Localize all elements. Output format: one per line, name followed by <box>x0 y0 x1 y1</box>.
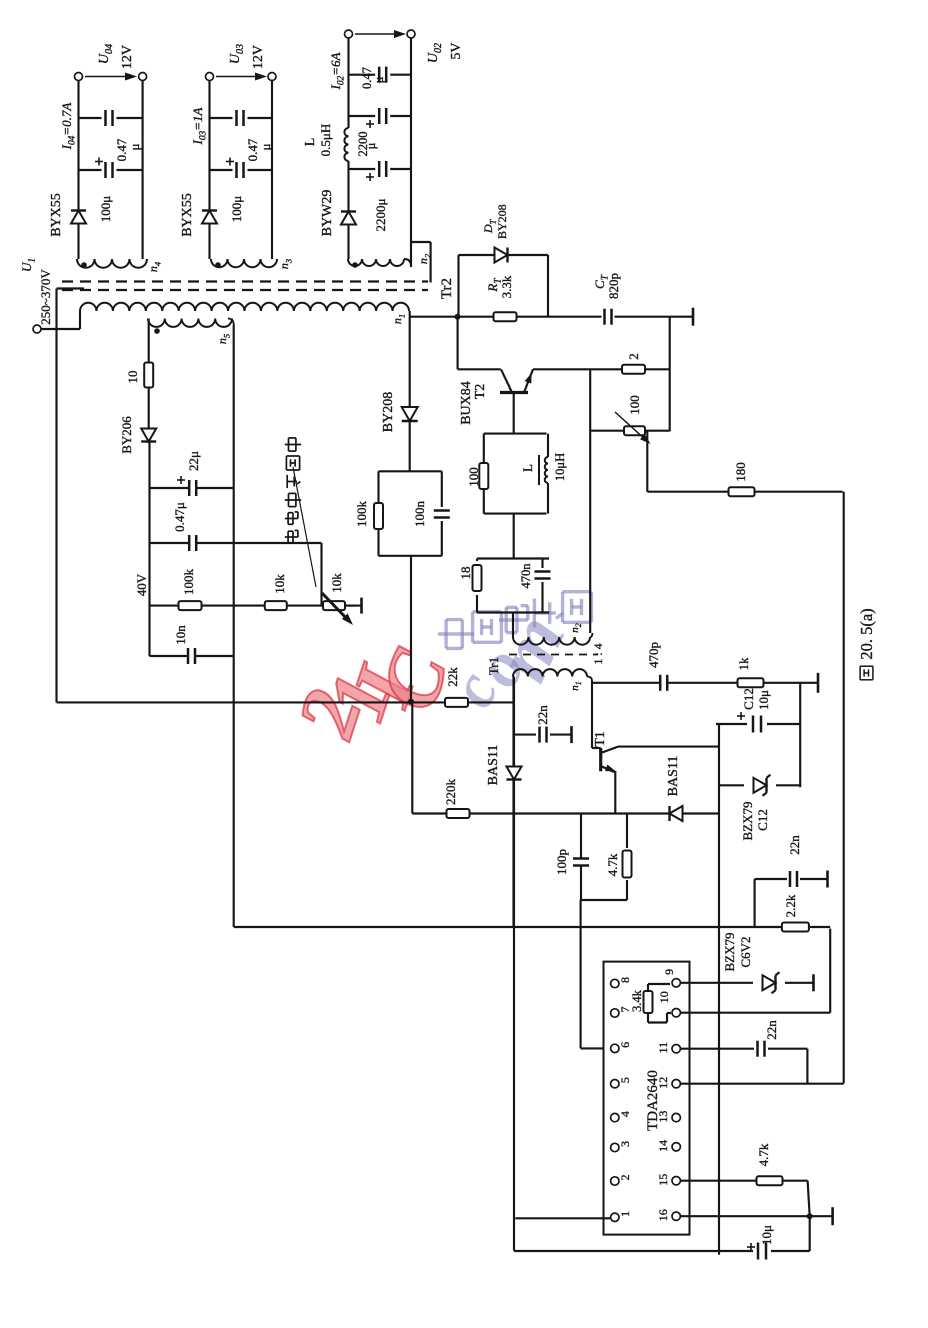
svg-text:C12: C12 <box>755 809 770 831</box>
svg-text:10μH: 10μH <box>553 453 567 481</box>
svg-text:L: L <box>303 138 318 147</box>
svg-text:2.2k: 2.2k <box>783 894 798 917</box>
svg-text:BAS11: BAS11 <box>486 745 501 786</box>
wire pot to 180 connector <box>646 431 648 492</box>
ground stub (22n#1) <box>826 871 829 888</box>
svg-text:12V: 12V <box>251 45 266 69</box>
pin 8 <box>611 979 619 987</box>
svg-text:15: 15 <box>656 1174 670 1186</box>
watermark zhongguo dianziwang <box>438 620 474 649</box>
wire T2 base lead <box>513 393 515 434</box>
svg-text:10k: 10k <box>272 574 287 594</box>
wire base block right side <box>484 433 547 435</box>
wire 180 line <box>647 491 842 493</box>
svg-text:5V: 5V <box>449 42 464 59</box>
wire emitter rail top <box>411 702 413 814</box>
wire pot100 line <box>590 430 670 432</box>
resistor 10k potentiometer <box>323 601 345 610</box>
capacitor 0.47u (U04) <box>79 117 102 119</box>
wire n5 upper lead <box>148 319 150 444</box>
wire control supply rail <box>718 723 720 1254</box>
diode BYX55 (U04 rectifier) <box>71 211 86 224</box>
wire BZX79C12 branch <box>719 784 744 786</box>
caption glyph tu <box>859 666 861 680</box>
wire 22k line <box>57 701 446 703</box>
winding n2 <box>348 259 404 266</box>
wire emitter network riser <box>669 317 671 432</box>
winding n5 auxiliary <box>148 319 232 327</box>
svg-text:18: 18 <box>458 567 473 580</box>
wire Tr1 n1 right lead <box>587 677 592 682</box>
pin 9 <box>672 979 680 987</box>
resistor 10k (divider) <box>265 601 287 610</box>
diode BAS11 #1 <box>507 767 522 780</box>
svg-text:10: 10 <box>125 371 140 384</box>
svg-text:100μ: 100μ <box>229 196 244 223</box>
svg-text:4: 4 <box>618 1111 632 1117</box>
snubber bottom branch <box>441 521 443 556</box>
wire n1 top lead <box>79 311 81 329</box>
svg-text:C6V2: C6V2 <box>738 936 753 967</box>
svg-text:μ: μ <box>258 143 273 150</box>
diode BZX79 C6V2 zener <box>763 975 776 990</box>
svg-text:3: 3 <box>618 1141 632 1147</box>
wire 22u branch <box>150 487 190 489</box>
svg-text:n4​: n4​ <box>146 261 162 272</box>
ground stub (pin16) <box>831 1207 834 1225</box>
voltage arrow U02 <box>355 33 397 35</box>
resistor 10 <box>144 363 153 388</box>
node collector junction <box>455 314 461 320</box>
resistor 180 <box>729 487 755 496</box>
svg-text:22n: 22n <box>764 1020 779 1040</box>
pin 5 <box>611 1080 619 1088</box>
svg-text:10k: 10k <box>329 573 344 593</box>
node pin16 junction <box>807 1213 813 1219</box>
resistor 18 <box>476 595 478 613</box>
svg-text:μ: μ <box>372 76 386 83</box>
pin 6 <box>611 1044 619 1052</box>
voltage arrow U03 <box>216 76 258 78</box>
diode BY208 <box>402 407 418 421</box>
resistor 220k <box>447 809 470 818</box>
leader line <box>293 467 316 587</box>
svg-text:BYW29: BYW29 <box>320 190 335 237</box>
svg-text:0.5μH: 0.5μH <box>318 124 333 157</box>
wire DT loop <box>457 255 459 317</box>
resistor RT 3.3k <box>494 312 517 321</box>
svg-text:11: 11 <box>656 1042 670 1054</box>
wire 470p line <box>592 682 660 684</box>
capacitor 22n #1 <box>789 871 792 887</box>
ground stub (22n Tr1) <box>570 726 573 743</box>
terminal U04 + <box>75 73 83 81</box>
capacitor 22n #2 <box>756 1041 759 1057</box>
resistor 100k (snubber) <box>374 503 383 529</box>
wire U02 rail jog <box>411 241 431 243</box>
resistor 100k (divider) <box>179 601 202 610</box>
svg-text:BY206: BY206 <box>119 416 134 454</box>
capacitor 22n (Tr1) <box>538 727 541 743</box>
svg-text:14: 14 <box>656 1140 670 1152</box>
terminal U1 <box>33 325 41 333</box>
transformer Tr1 core <box>509 654 598 656</box>
svg-text:BUX84: BUX84 <box>459 381 474 425</box>
svg-text:22k: 22k <box>445 667 460 687</box>
wire pin10 line <box>680 1012 830 1014</box>
capacitor 10n <box>187 648 190 664</box>
wire timing node <box>581 899 627 901</box>
wire U03 top rail <box>208 81 210 260</box>
resistor 100 pot <box>624 426 645 435</box>
wire base blocks connector <box>513 514 515 559</box>
node A junction <box>408 699 414 705</box>
svg-text:n5​: n5​ <box>215 333 231 344</box>
ground stub (CT) <box>692 308 695 326</box>
label output-voltage-adjust text <box>285 536 298 538</box>
pin 15 <box>672 1177 680 1185</box>
wire collector node line <box>410 316 602 318</box>
terminal U02 + <box>345 30 353 38</box>
wire C12 cap branch <box>716 723 747 725</box>
wire bus vertical <box>234 926 831 928</box>
resistor 100 (base) <box>483 489 485 514</box>
capacitor 470p <box>659 675 662 691</box>
svg-text:12: 12 <box>656 1077 670 1089</box>
ground stub (1k line) <box>817 673 820 693</box>
svg-text:Tr1: Tr1 <box>486 657 501 675</box>
wire U04 top rail <box>77 81 79 260</box>
ground stub (pot) <box>360 598 363 614</box>
capacitor CT 820p <box>603 309 606 325</box>
capacitor 0.47u (U02) <box>349 74 376 76</box>
transistor T2 BUX84 <box>500 391 528 394</box>
wire pin16 line <box>680 1215 832 1217</box>
resistor 2 <box>622 365 645 374</box>
pin 1 <box>611 1213 619 1221</box>
wire Tr1 n2 top lead <box>512 613 514 638</box>
svg-text:100: 100 <box>627 395 642 415</box>
svg-text:n2​: n2​ <box>416 253 432 264</box>
wire 22n stub <box>514 734 536 736</box>
svg-text:16: 16 <box>656 1209 670 1221</box>
resistor 3.4k (pins 9-10) <box>648 983 670 985</box>
capacitor 0.47u (aux) <box>188 535 191 551</box>
wire 10n branch <box>150 655 189 657</box>
winding Tr1 n2 <box>513 637 590 645</box>
svg-text:220k: 220k <box>443 779 458 806</box>
terminal U04 - <box>139 73 147 81</box>
svg-text:180: 180 <box>733 462 748 482</box>
wire C12 block right side <box>799 682 801 787</box>
svg-text:10n: 10n <box>173 625 188 645</box>
wire BY208 line right <box>409 311 411 471</box>
svg-text:Tr2: Tr2 <box>439 278 455 299</box>
svg-text:1 : 4: 1 : 4 <box>591 643 605 664</box>
pin 14 <box>672 1143 680 1151</box>
diode BYX55 (U03 rectifier) <box>202 211 217 224</box>
winding n3 <box>211 259 277 267</box>
wire 22n#1 branch <box>754 879 756 927</box>
capacitor 100u (U03) <box>210 169 233 171</box>
pin 3 <box>611 1143 619 1151</box>
capacitor 10u <box>757 1243 760 1260</box>
wire 0.47u to divider <box>320 543 322 606</box>
svg-text:6: 6 <box>618 1042 632 1048</box>
svg-text:2: 2 <box>626 353 641 360</box>
wire 0.47u branch <box>150 542 190 544</box>
capacitor 2200u #2 (U02) <box>349 168 376 170</box>
wire 18 block left side <box>477 611 549 613</box>
svg-text:BZX79: BZX79 <box>722 933 737 972</box>
transistor T1 <box>592 747 601 749</box>
pin 7 <box>611 1009 619 1017</box>
svg-text:μ: μ <box>364 142 378 149</box>
svg-text:1k: 1k <box>736 657 751 671</box>
wire pin12 line <box>680 1083 843 1085</box>
capacitor 22u <box>188 480 191 496</box>
wire U04 bottom rail <box>142 81 144 260</box>
wire U02 top rail <box>347 161 349 259</box>
terminal U03 - <box>268 73 276 81</box>
wire U02 bottom rail <box>410 38 412 267</box>
capacitor 0.47u (U03) <box>210 117 233 119</box>
svg-text:12V: 12V <box>120 45 135 69</box>
resistor 2.2k <box>782 923 809 932</box>
resistor 4.7k <box>623 851 632 878</box>
resistor 22k <box>445 698 468 707</box>
svg-text:13: 13 <box>656 1111 670 1123</box>
voltage arrow U04 <box>85 76 128 78</box>
snubber left side <box>379 555 442 557</box>
svg-text:22μ: 22μ <box>186 451 201 471</box>
wire 100p branch <box>580 866 582 900</box>
svg-text:C12: C12 <box>741 688 756 710</box>
wire T2 collector riser <box>458 368 501 370</box>
wire 22n#2 to pin12 line <box>806 1049 808 1084</box>
svg-text:BY208: BY208 <box>381 392 396 432</box>
wire Tr1 n2 bottom lead <box>590 633 592 637</box>
svg-text:100n: 100n <box>412 501 427 528</box>
svg-text:BYX55: BYX55 <box>180 193 195 237</box>
svg-text:10: 10 <box>657 991 671 1003</box>
winding Tr1 n1 <box>513 669 587 676</box>
svg-text:10μ: 10μ <box>756 690 771 710</box>
svg-text:22n: 22n <box>787 835 802 855</box>
svg-text:100p: 100p <box>554 849 569 875</box>
capacitor 2200u #1 (U02) <box>349 115 376 117</box>
IC U1 TDA2640 body <box>604 962 690 1235</box>
svg-text:100μ: 100μ <box>98 196 113 223</box>
wire T1 collector <box>618 746 719 748</box>
svg-text:20. 5(a): 20. 5(a) <box>857 608 876 659</box>
wire BY208 line left <box>410 556 412 702</box>
capacitor C12 10u <box>752 716 755 733</box>
svg-text:T2: T2 <box>473 384 488 400</box>
wire feedback bottom <box>843 492 845 1084</box>
pin 11 <box>672 1045 680 1053</box>
wire U1 input <box>41 328 80 330</box>
capacitor 100u (U04) <box>79 169 102 171</box>
svg-text:BYX55: BYX55 <box>49 193 64 237</box>
wire emitter rail <box>412 812 719 814</box>
pin 12 <box>672 1080 680 1088</box>
pin 13 <box>672 1113 680 1121</box>
inductor L 0.5uH <box>344 128 348 161</box>
svg-text:250~370V: 250~370V <box>38 269 53 325</box>
svg-text:1: 1 <box>618 1211 632 1217</box>
svg-text:100k: 100k <box>354 501 369 528</box>
terminal U03 + <box>206 73 214 81</box>
diode BYW29 (U02 rectifier) <box>341 212 356 225</box>
svg-text:10μ: 10μ <box>759 1225 774 1245</box>
diode BY206 <box>141 429 156 442</box>
svg-text:L: L <box>520 464 535 472</box>
svg-text:3.4k: 3.4k <box>630 989 644 1012</box>
svg-text:820p: 820p <box>606 273 621 299</box>
svg-text:BY208: BY208 <box>495 204 509 239</box>
wire return bus top <box>55 289 57 703</box>
wire pin11 line <box>680 1048 754 1050</box>
wire divider branch <box>150 605 356 607</box>
pin 2 <box>611 1177 619 1185</box>
wire pin1 lead <box>515 1217 611 1219</box>
svg-text:0.47μ: 0.47μ <box>172 502 187 532</box>
wire n5 lower lead <box>233 325 235 927</box>
svg-text:100k: 100k <box>181 569 196 596</box>
ground stub (C6V2) <box>785 982 814 984</box>
wire regulator top rail <box>148 442 150 656</box>
capacitor 100n (snubber) <box>434 516 450 519</box>
svg-text:3.3k: 3.3k <box>499 275 514 298</box>
wire pin9 line <box>680 982 753 984</box>
wire pot to stub <box>345 605 362 607</box>
resistor 1k <box>738 678 764 687</box>
capacitor 100p <box>573 864 589 867</box>
svg-text:2: 2 <box>618 1175 632 1181</box>
diode BZX79 C12 zener <box>754 778 767 793</box>
svg-text:2200μ: 2200μ <box>373 198 388 231</box>
wire base block left side <box>484 513 547 515</box>
wire Tr1 n1 left lead <box>512 677 514 928</box>
svg-text:470p: 470p <box>646 642 661 668</box>
wire T1 emitter <box>614 771 616 814</box>
wire pin6 lead <box>580 900 582 1048</box>
pin 16 <box>672 1212 680 1220</box>
svg-text:40V: 40V <box>134 573 149 596</box>
svg-text:9: 9 <box>662 969 676 975</box>
resistor 4.7k #2 <box>757 1176 783 1185</box>
wire 4.7k branch <box>626 880 628 900</box>
terminal U02 - <box>407 30 415 38</box>
wire bottom rail <box>514 1250 753 1252</box>
snubber right side <box>379 470 442 472</box>
svg-text:100: 100 <box>466 467 481 487</box>
pin 10 <box>672 1009 680 1017</box>
pin 4 <box>611 1113 619 1121</box>
wire pin15 line <box>680 1180 769 1182</box>
winding n1 primary <box>80 303 409 311</box>
inductor L 10uH <box>547 483 549 514</box>
svg-text:4.7k: 4.7k <box>756 1143 771 1166</box>
svg-text:8: 8 <box>618 977 632 983</box>
pot 100 arrow <box>615 412 647 441</box>
wire control ground rail <box>513 677 515 1251</box>
wire U03 bottom rail <box>271 81 273 260</box>
wire 18 block right side <box>477 557 549 559</box>
svg-text:BAS11: BAS11 <box>666 756 681 797</box>
svg-text:BZX79: BZX79 <box>740 802 755 841</box>
svg-text:μ: μ <box>127 143 142 150</box>
snubber top branch <box>377 471 379 556</box>
svg-text:22n: 22n <box>535 705 550 725</box>
wire T2 emitter line <box>533 368 670 370</box>
diode DT BY208 <box>495 248 508 263</box>
capacitor 470n <box>541 582 543 613</box>
svg-text:5: 5 <box>618 1077 632 1083</box>
transformer Tr2 core <box>62 289 428 291</box>
svg-text:4.7k: 4.7k <box>605 853 620 876</box>
svg-text:470n: 470n <box>519 563 533 589</box>
svg-text:T1: T1 <box>593 731 608 747</box>
winding n4 <box>77 259 147 268</box>
diode BAS11 #2 <box>670 806 683 821</box>
